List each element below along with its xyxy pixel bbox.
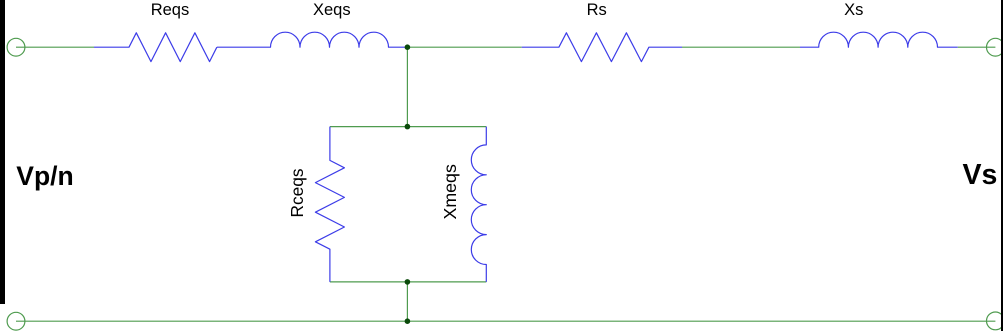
- svg-text:Rs: Rs: [587, 1, 607, 19]
- wire shunt bottom rail: [330, 281, 486, 283]
- terminal port P3 top-right: [987, 38, 1003, 56]
- junction node top: [405, 44, 411, 50]
- junction node shunt-top: [405, 124, 411, 130]
- wire top-right-middle: [682, 46, 800, 48]
- wire vertical upper: [406, 47, 408, 126]
- terminal port P1 top-left: [7, 38, 25, 56]
- wire vertical lower: [406, 282, 408, 321]
- inductor Xeqs: [217, 32, 408, 47]
- black border bar left: [0, 0, 5, 304]
- svg-text:Xs: Xs: [844, 1, 863, 19]
- terminal port P2 bottom-left: [7, 312, 25, 330]
- svg-text:Vs: Vs: [963, 159, 998, 191]
- wire shunt top rail: [330, 126, 486, 128]
- svg-text:Xmeqs: Xmeqs: [440, 164, 460, 219]
- svg-text:Rceqs: Rceqs: [287, 168, 307, 217]
- inductor Xs: [800, 32, 958, 47]
- black border bar right: [1001, 0, 1003, 331]
- resistor Rs: [522, 33, 682, 62]
- svg-text:Reqs: Reqs: [151, 1, 190, 19]
- inductor Xmeqs (vertical): [471, 127, 486, 282]
- wire top-right: [958, 46, 996, 48]
- resistor Rceqs (vertical): [315, 127, 344, 282]
- resistor Reqs: [94, 33, 217, 62]
- wire bottom bus: [16, 320, 995, 322]
- junction node bottom-bus: [405, 318, 411, 324]
- svg-text:Xeqs: Xeqs: [313, 1, 351, 19]
- junction node shunt-bottom: [405, 279, 411, 285]
- svg-text:Vp/n: Vp/n: [16, 161, 73, 191]
- terminal port P4 bottom-right: [987, 312, 1003, 330]
- wire top-middle: [407, 46, 521, 48]
- wire top-left: [16, 46, 94, 48]
